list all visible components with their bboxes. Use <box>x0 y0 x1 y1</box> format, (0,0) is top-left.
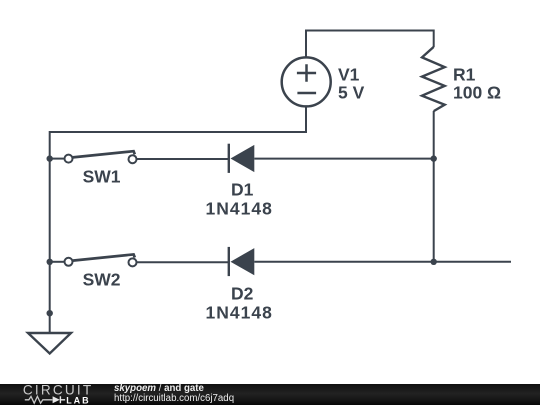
voltage source V1 <box>282 57 331 106</box>
footer watermark bar <box>0 384 540 405</box>
ground <box>28 333 71 354</box>
wire top horizontal <box>305 30 434 32</box>
label D1 value <box>206 180 273 219</box>
svg-text:1N4148: 1N4148 <box>206 199 273 219</box>
svg-text:LAB: LAB <box>66 395 91 405</box>
wire R1 bottom lead <box>433 111 435 159</box>
node dot ground <box>47 310 53 316</box>
wire D2 to output <box>254 261 511 263</box>
node dot row1 left <box>47 155 53 161</box>
wire SW1 to D1 <box>137 158 229 160</box>
svg-text:1N4148: 1N4148 <box>206 302 273 322</box>
wire D1 to node <box>254 158 434 160</box>
switch SW2 <box>65 254 137 266</box>
diode D2 <box>229 247 255 276</box>
footer text <box>114 384 234 403</box>
wire V1 top lead <box>305 31 307 58</box>
node dot R1 bottom <box>431 155 437 161</box>
wire V1 bottom lead <box>305 107 307 133</box>
wire left rail <box>49 131 51 333</box>
svg-text:SW2: SW2 <box>83 270 121 290</box>
label V1 value <box>338 65 365 103</box>
wire SW2 to D2 <box>137 261 229 263</box>
svg-text:100 Ω: 100 Ω <box>453 83 501 103</box>
svg-text:SW1: SW1 <box>83 167 121 187</box>
svg-text:D2: D2 <box>231 284 254 304</box>
svg-text:R1: R1 <box>453 65 476 85</box>
wire node column <box>433 159 435 262</box>
wire row1 to SW1 <box>50 158 65 160</box>
svg-text:V1: V1 <box>338 65 360 85</box>
label D2 value <box>206 284 273 323</box>
wire V1 to left rail <box>50 131 307 133</box>
wire R1 top lead <box>433 30 435 48</box>
wire row2 to SW2 <box>50 261 65 263</box>
label R1 value <box>453 65 501 103</box>
node dot output <box>431 259 437 265</box>
resistor R1 <box>422 47 445 111</box>
CircuitLab logo <box>0 383 100 405</box>
svg-text:D1: D1 <box>231 180 254 200</box>
node dot row2 left <box>47 259 53 265</box>
switch SW1 <box>65 151 137 163</box>
diode D1 <box>229 144 255 173</box>
svg-text:5 V: 5 V <box>338 83 365 103</box>
